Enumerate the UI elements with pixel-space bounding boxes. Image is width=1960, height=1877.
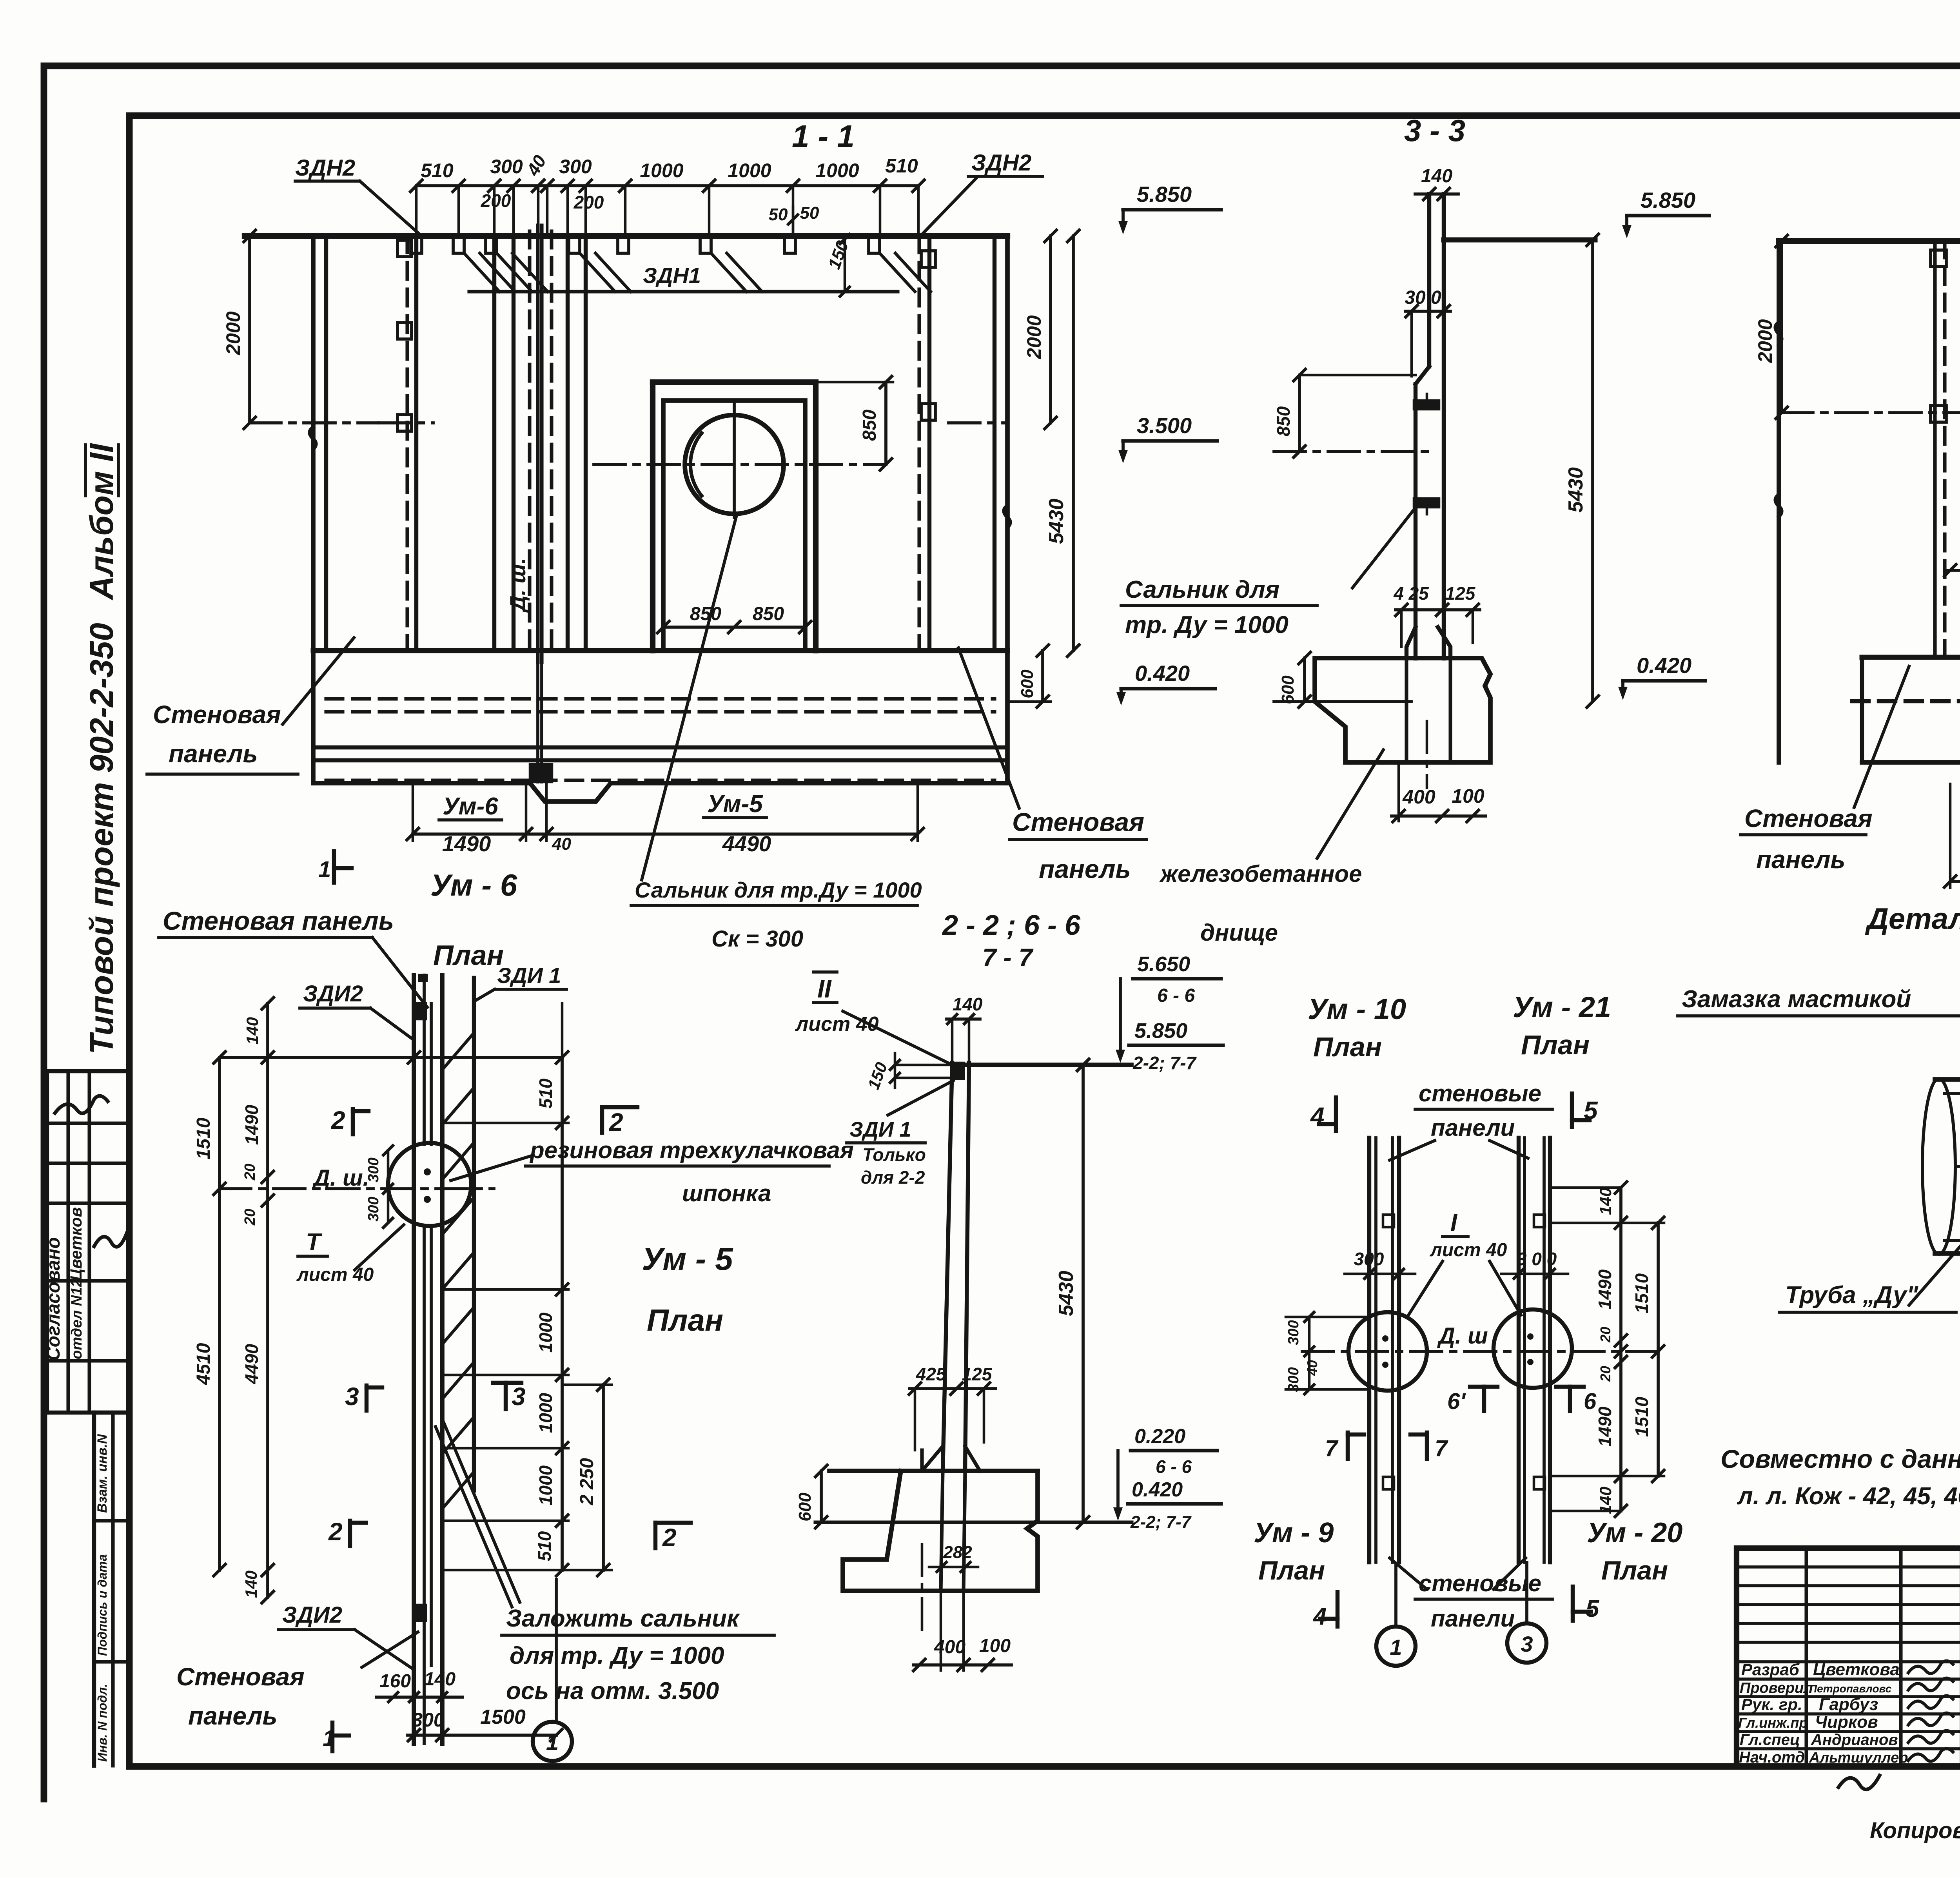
svg-text:Деталь заделки сальников: Деталь заделки сальников — [1865, 902, 1960, 936]
svg-text:5: 5 — [1586, 1595, 1600, 1622]
svg-text:2-2; 7-7: 2-2; 7-7 — [1132, 1053, 1197, 1073]
svg-text:2000: 2000 — [222, 311, 244, 355]
svg-text:1000: 1000 — [728, 160, 771, 181]
svg-text:План: План — [1601, 1556, 1668, 1585]
svg-text:Стеновая панель: Стеновая панель — [163, 906, 394, 935]
svg-text:200: 200 — [481, 190, 511, 211]
svg-text:50: 50 — [800, 203, 819, 223]
svg-text:резиновая трехкулачковая: резиновая трехкулачковая — [529, 1137, 854, 1163]
svg-text:5430: 5430 — [1564, 467, 1587, 513]
svg-text:0.420: 0.420 — [1637, 653, 1691, 678]
svg-text:850: 850 — [859, 410, 880, 441]
svg-text:Проверил: Проверил — [1740, 1680, 1813, 1696]
svg-text:Рук. гр.: Рук. гр. — [1741, 1695, 1802, 1714]
svg-text:300: 300 — [559, 156, 592, 178]
svg-text:300: 300 — [1285, 1320, 1302, 1345]
svg-text:1: 1 — [1390, 1635, 1402, 1659]
svg-text:Т: Т — [306, 1229, 323, 1256]
svg-text:6: 6 — [1584, 1389, 1597, 1414]
svg-text:для 2-2: для 2-2 — [861, 1167, 925, 1188]
svg-text:600: 600 — [1278, 675, 1298, 704]
svg-text:1490: 1490 — [442, 831, 491, 856]
svg-text:4510: 4510 — [193, 1343, 214, 1385]
svg-text:125: 125 — [1445, 583, 1476, 604]
svg-text:600: 600 — [795, 1493, 815, 1522]
svg-text:3: 3 — [345, 1382, 359, 1411]
svg-text:Ум-6: Ум-6 — [443, 793, 498, 820]
svg-text:400: 400 — [934, 1637, 965, 1658]
svg-text:ЗДИ 1: ЗДИ 1 — [849, 1118, 911, 1141]
svg-text:Гл.спец: Гл.спец — [1740, 1731, 1800, 1748]
svg-text:2-2; 7-7: 2-2; 7-7 — [1130, 1512, 1192, 1532]
svg-text:2000: 2000 — [1754, 319, 1776, 363]
svg-text:282: 282 — [943, 1543, 972, 1562]
svg-text:II: II — [817, 975, 832, 1003]
svg-text:0.420: 0.420 — [1135, 661, 1190, 686]
svg-text:ЗДН2: ЗДН2 — [971, 150, 1031, 176]
svg-text:панель: панель — [169, 740, 258, 768]
svg-text:6': 6' — [1447, 1389, 1466, 1414]
svg-text:2 250: 2 250 — [577, 1458, 597, 1505]
svg-text:20: 20 — [242, 1164, 258, 1181]
svg-text:5430: 5430 — [1045, 499, 1068, 544]
svg-text:7: 7 — [1325, 1436, 1339, 1461]
svg-text:Стеновая: Стеновая — [153, 700, 281, 729]
svg-text:Подпись и дата: Подпись и дата — [95, 1554, 109, 1656]
svg-text:панель: панель — [188, 1702, 278, 1730]
svg-text:140: 140 — [953, 994, 983, 1014]
svg-text:140: 140 — [242, 1571, 260, 1598]
svg-text:100: 100 — [979, 1636, 1011, 1656]
svg-text:Д. ш: Д. ш — [1437, 1323, 1488, 1349]
svg-text:600: 600 — [1018, 669, 1037, 698]
svg-text:Альбом II: Альбом II — [83, 443, 120, 600]
svg-text:Только: Только — [862, 1144, 926, 1165]
svg-text:тр. Ду = 1000: тр. Ду = 1000 — [1125, 611, 1289, 638]
svg-text:510: 510 — [885, 155, 918, 177]
svg-text:Ум-5: Ум-5 — [707, 791, 763, 818]
svg-text:2: 2 — [609, 1108, 623, 1136]
svg-text:ЗДИ 1: ЗДИ 1 — [497, 963, 561, 988]
svg-text:100: 100 — [1452, 785, 1485, 807]
svg-text:лист 40: лист 40 — [1430, 1240, 1507, 1260]
svg-text:510: 510 — [421, 160, 454, 181]
svg-text:ось на отм. 3.500: ось на отм. 3.500 — [506, 1678, 719, 1705]
svg-text:Гл.инж.пр: Гл.инж.пр — [1738, 1715, 1808, 1731]
svg-text:Взам. инв.N: Взам. инв.N — [95, 1434, 110, 1513]
svg-text:Разраб: Разраб — [1741, 1660, 1800, 1679]
svg-text:Ск = 300: Ск = 300 — [711, 926, 803, 952]
svg-text:1000: 1000 — [535, 1465, 556, 1505]
svg-text:Копировал: Копировал — [1870, 1818, 1960, 1843]
svg-text:Ум - 10: Ум - 10 — [1308, 993, 1406, 1025]
svg-text:20: 20 — [1597, 1366, 1613, 1382]
svg-text:1500: 1500 — [480, 1706, 526, 1728]
svg-text:7 - 7: 7 - 7 — [982, 943, 1034, 972]
svg-text:4490: 4490 — [241, 1344, 262, 1384]
svg-text:1490: 1490 — [1595, 1406, 1615, 1447]
svg-text:ЗДИ2: ЗДИ2 — [282, 1602, 342, 1628]
svg-text:Согласовано: Согласовано — [43, 1237, 64, 1361]
svg-text:железобетанное: железобетанное — [1159, 861, 1362, 887]
svg-text:1000: 1000 — [535, 1393, 556, 1433]
svg-text:140: 140 — [1596, 1188, 1615, 1215]
svg-text:300: 300 — [365, 1157, 382, 1182]
svg-text:4 25: 4 25 — [1393, 583, 1429, 604]
svg-text:Стеновая: Стеновая — [1012, 807, 1144, 836]
svg-text:Сальник для: Сальник для — [1125, 576, 1279, 603]
svg-text:3: 3 — [1521, 1632, 1533, 1656]
svg-text:300: 300 — [490, 156, 523, 178]
svg-text:200: 200 — [573, 192, 604, 212]
svg-text:40: 40 — [552, 834, 571, 854]
svg-text:1490: 1490 — [241, 1104, 262, 1145]
svg-text:300: 300 — [412, 1709, 445, 1731]
svg-text:отдел N12: отдел N12 — [69, 1279, 85, 1360]
svg-text:1000: 1000 — [535, 1312, 556, 1353]
svg-text:2: 2 — [328, 1518, 343, 1546]
svg-text:Типовой проект 902-2-350: Типовой проект 902-2-350 — [83, 623, 120, 1054]
svg-text:План: План — [433, 940, 504, 971]
svg-text:4490: 4490 — [722, 831, 771, 856]
svg-text:3.500: 3.500 — [1137, 413, 1192, 438]
svg-text:Ум - 6: Ум - 6 — [430, 868, 517, 902]
svg-text:панель: панель — [1756, 845, 1846, 874]
svg-text:5.850: 5.850 — [1134, 1019, 1187, 1043]
svg-text:850: 850 — [690, 604, 721, 624]
svg-text:300: 300 — [365, 1197, 382, 1221]
svg-text:5.850: 5.850 — [1641, 188, 1695, 212]
svg-text:1 - 1: 1 - 1 — [792, 119, 855, 154]
svg-text:2 - 2 ; 6 - 6: 2 - 2 ; 6 - 6 — [942, 910, 1081, 941]
svg-text:Совместно с данным ст.: Совместно с данным ст. — [1720, 1444, 1960, 1473]
svg-text:лист 40: лист 40 — [296, 1264, 374, 1285]
svg-text:6 - 6: 6 - 6 — [1156, 1456, 1192, 1477]
svg-text:20: 20 — [242, 1209, 258, 1226]
svg-text:20: 20 — [1597, 1327, 1613, 1343]
svg-text:Д. ш.: Д. ш. — [505, 558, 530, 613]
svg-text:0.420: 0.420 — [1132, 1478, 1183, 1501]
svg-text:125: 125 — [962, 1364, 993, 1384]
svg-text:Заложить сальник: Заложить сальник — [506, 1605, 740, 1632]
svg-text:Гарбуз: Гарбуз — [1819, 1695, 1878, 1714]
svg-text:6 - 6: 6 - 6 — [1157, 985, 1195, 1006]
svg-text:Инв. N подл.: Инв. N подл. — [95, 1684, 109, 1762]
svg-text:160: 160 — [379, 1671, 411, 1692]
svg-text:5.850: 5.850 — [1137, 182, 1192, 207]
svg-text:Замазка мастикой: Замазка мастикой — [1682, 986, 1911, 1013]
svg-text:шпонка: шпонка — [682, 1180, 771, 1206]
svg-text:1000: 1000 — [640, 160, 683, 181]
svg-text:140: 140 — [1421, 166, 1452, 187]
svg-text:Д. ш.: Д. ш. — [312, 1165, 369, 1191]
svg-text:1: 1 — [546, 1730, 559, 1755]
svg-text:Стеновая: Стеновая — [176, 1663, 305, 1691]
svg-text:Андрианов: Андрианов — [1811, 1731, 1898, 1748]
svg-text:510: 510 — [534, 1531, 555, 1561]
svg-text:2000: 2000 — [1023, 315, 1045, 359]
svg-text:Цветкова: Цветкова — [1813, 1660, 1900, 1679]
svg-text:Цветков: Цветков — [67, 1207, 85, 1281]
svg-text:40: 40 — [1304, 1360, 1320, 1376]
svg-text:План: План — [1521, 1030, 1590, 1060]
svg-text:5430: 5430 — [1055, 1271, 1078, 1316]
svg-text:ЗДН2: ЗДН2 — [295, 155, 355, 181]
svg-text:510: 510 — [535, 1078, 556, 1108]
svg-text:850: 850 — [753, 604, 784, 624]
svg-text:Ум - 9: Ум - 9 — [1254, 1517, 1334, 1549]
svg-text:днище: днище — [1200, 919, 1278, 946]
svg-text:140: 140 — [243, 1017, 261, 1045]
svg-text:30 0: 30 0 — [1405, 287, 1441, 308]
svg-text:Сальник для тр.Ду = 1000: Сальник для тр.Ду = 1000 — [635, 878, 922, 902]
svg-text:л. л. Кож - 42, 45, 46: л. л. Кож - 42, 45, 46 — [1737, 1483, 1960, 1510]
svg-text:Ум - 20: Ум - 20 — [1587, 1517, 1682, 1549]
svg-text:Альтшуллер: Альтшуллер — [1809, 1750, 1908, 1766]
svg-text:Чирков: Чирков — [1815, 1712, 1878, 1732]
svg-text:панели: панели — [1431, 1605, 1515, 1632]
svg-text:стеновые: стеновые — [1419, 1080, 1541, 1106]
svg-text:для тр. Ду = 1000: для тр. Ду = 1000 — [510, 1642, 724, 1669]
svg-text:850: 850 — [1273, 406, 1294, 436]
svg-text:ЗДИ2: ЗДИ2 — [303, 981, 363, 1007]
svg-text:Ум - 5: Ум - 5 — [642, 1241, 733, 1277]
svg-text:1490: 1490 — [1595, 1269, 1615, 1309]
svg-text:Труба „Ду": Труба „Ду" — [1785, 1282, 1919, 1309]
svg-text:Петропавловс: Петропавловс — [1809, 1683, 1892, 1695]
svg-text:3 - 3: 3 - 3 — [1404, 113, 1465, 148]
svg-text:панели: панели — [1431, 1115, 1515, 1141]
svg-text:3: 3 — [512, 1382, 526, 1411]
svg-text:Ум - 21: Ум - 21 — [1513, 991, 1611, 1023]
svg-text:1510: 1510 — [1632, 1396, 1652, 1437]
svg-text:1000: 1000 — [815, 160, 859, 181]
svg-text:2: 2 — [662, 1523, 677, 1552]
svg-text:План: План — [1258, 1556, 1325, 1585]
svg-text:I: I — [1450, 1209, 1458, 1236]
svg-text:2: 2 — [331, 1106, 345, 1134]
svg-text:3 0 0: 3 0 0 — [1517, 1249, 1557, 1269]
svg-text:0.220: 0.220 — [1134, 1425, 1185, 1448]
svg-text:50: 50 — [769, 205, 788, 224]
svg-text:5.650: 5.650 — [1137, 952, 1190, 976]
svg-text:400: 400 — [1402, 786, 1436, 808]
svg-text:7: 7 — [1435, 1436, 1448, 1461]
svg-text:4: 4 — [1312, 1603, 1327, 1630]
svg-text:панель: панель — [1039, 854, 1131, 883]
svg-text:стеновые: стеновые — [1419, 1570, 1541, 1596]
svg-text:1: 1 — [318, 857, 331, 882]
svg-text:1510: 1510 — [193, 1117, 214, 1159]
svg-text:300: 300 — [1354, 1249, 1384, 1269]
svg-text:План: План — [1313, 1032, 1382, 1062]
svg-text:ЗДН1: ЗДН1 — [643, 263, 701, 288]
svg-text:1510: 1510 — [1632, 1273, 1652, 1313]
svg-text:140: 140 — [424, 1669, 456, 1690]
svg-text:План: План — [647, 1303, 723, 1337]
svg-text:Нач.отд.: Нач.отд. — [1739, 1749, 1809, 1766]
